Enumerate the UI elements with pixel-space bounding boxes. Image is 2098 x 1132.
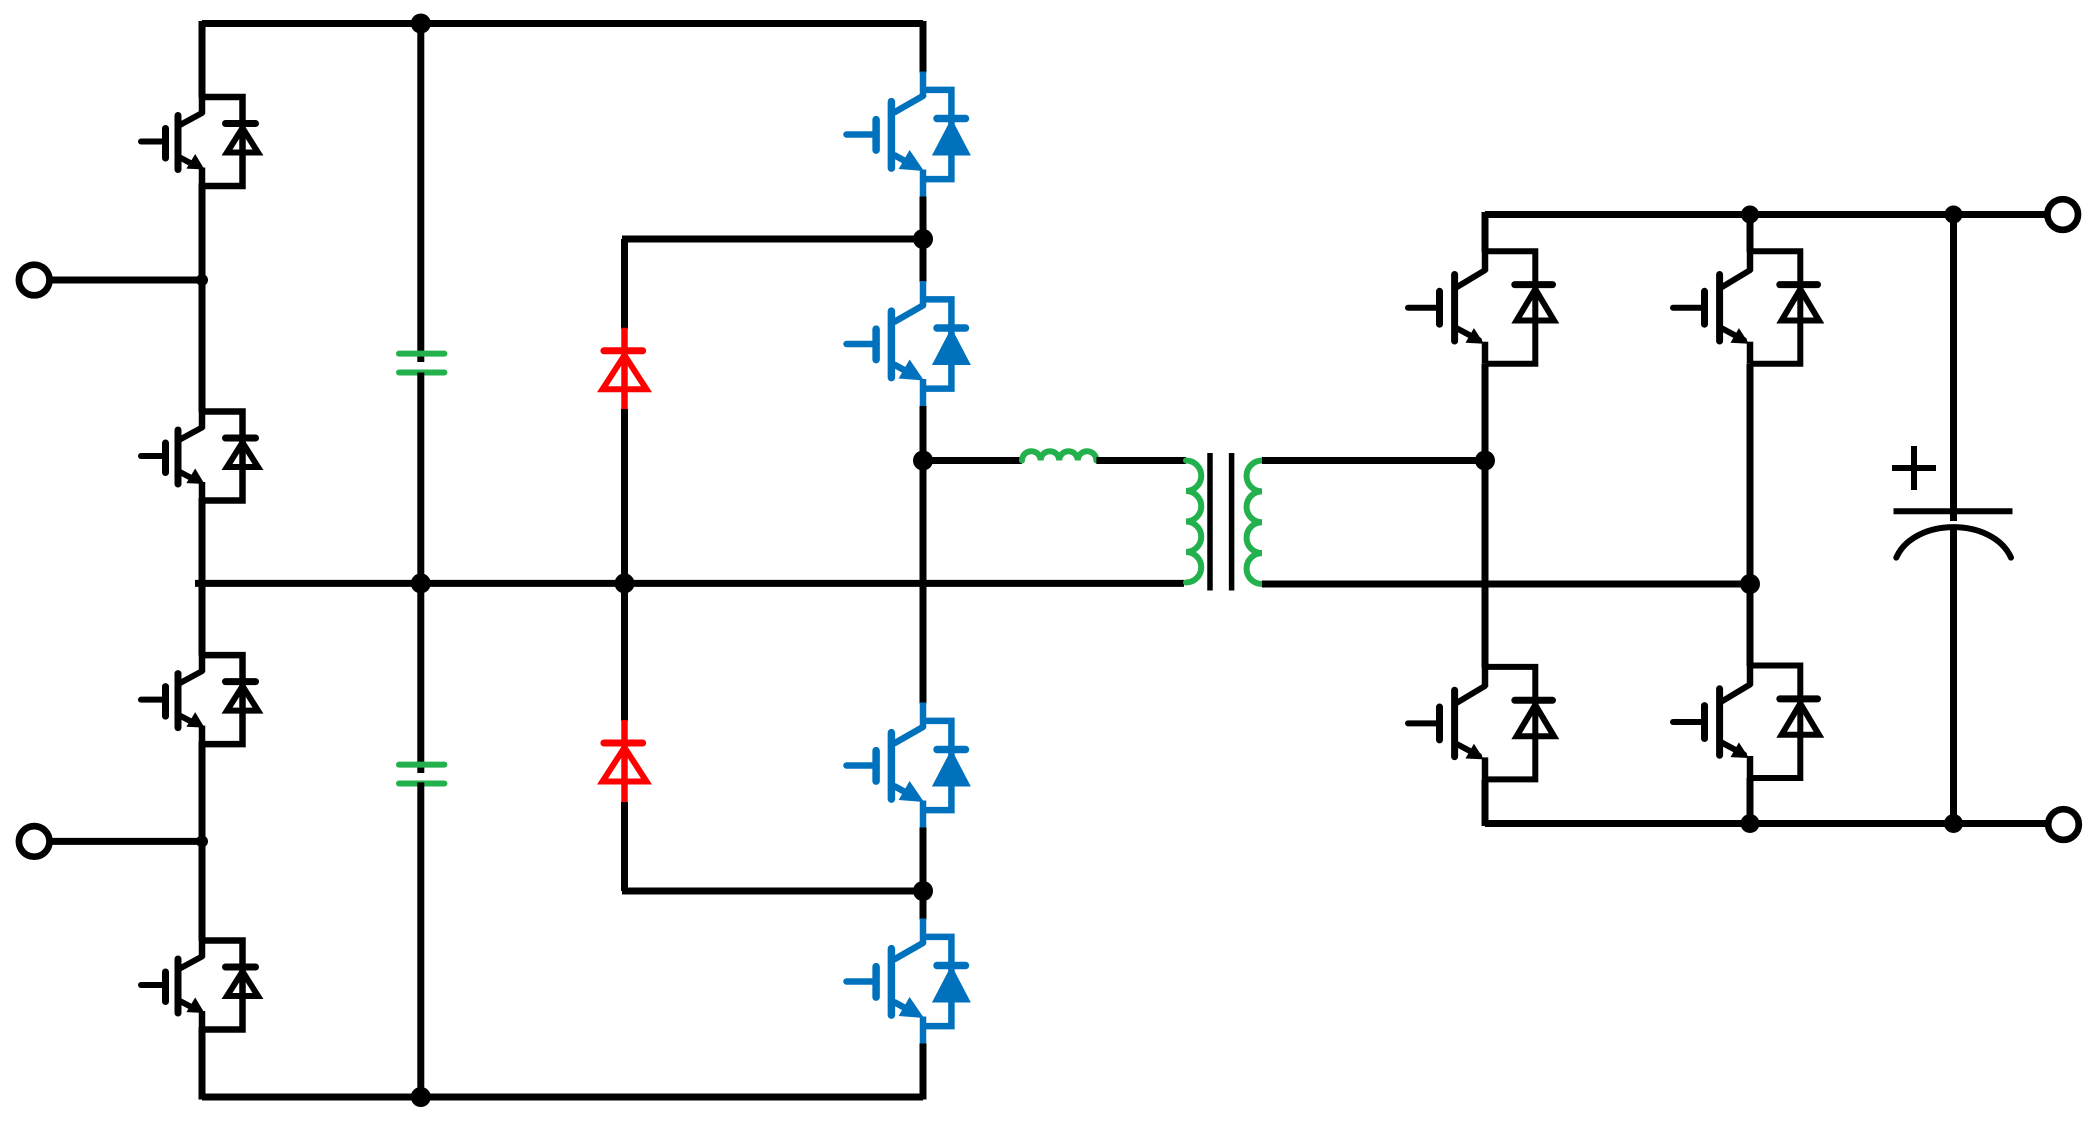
wire Q6 emitter to secondary bottom node	[1747, 364, 1754, 584]
wire right top rail	[1485, 211, 2045, 218]
wire node D to inductor	[923, 457, 1022, 464]
wire left column: node B to Q4	[199, 841, 206, 941]
output terminal - (bottom right)	[2048, 809, 2079, 840]
transistor T1 (blue IGBT)	[847, 72, 969, 198]
inductor L1 (green)	[1022, 451, 1096, 460]
output terminal + (top right)	[2047, 199, 2078, 230]
wire capacitor leg upper: top rail to C1	[417, 21, 424, 362]
input terminal 2	[19, 826, 50, 857]
wire input 2 to node B	[50, 838, 203, 845]
wire T1 emitter to node C	[920, 197, 927, 240]
junction right top rail / output cap	[1945, 206, 1963, 224]
wire blue leg: top rail to T1	[920, 21, 927, 73]
transistor T3 (blue IGBT)	[847, 703, 969, 829]
transistor T4 (blue IGBT)	[847, 919, 969, 1045]
transformer secondary winding (green)	[1247, 461, 1262, 585]
wire input 1 to node A	[50, 277, 203, 284]
node E (T3-T4 midpoint)	[913, 881, 933, 901]
capacitor C3 curved plate	[1896, 527, 2011, 557]
transistor Q1 (IGBT with antiparallel diode)	[141, 97, 258, 186]
junction secondary top at right bridge left leg	[1475, 451, 1495, 471]
node A (input 1 midpoint)	[196, 274, 208, 286]
wire node D to T3	[920, 461, 927, 704]
wire clamp branch upper horizontal	[622, 236, 923, 243]
wire left column: Q3 emitter to input node B	[199, 742, 206, 842]
wire output cap leg top	[1950, 215, 1957, 522]
wire Q8 emitter to bottom rail	[1747, 778, 1754, 824]
transistor Q5 (IGBT right bridge)	[1408, 251, 1554, 364]
wire clamp branch lower horizontal	[622, 888, 923, 895]
wire left column: Q1 emitter to input node A	[199, 184, 206, 281]
transformer core bar 2	[1229, 453, 1235, 591]
wire left column: top rail to Q1	[199, 21, 206, 98]
wire output cap leg bottom	[1950, 529, 1957, 824]
transistor Q8 (IGBT right bridge)	[1673, 666, 1819, 779]
transformer primary winding (green)	[1186, 461, 1201, 583]
wire left column: node A to Q2	[199, 280, 206, 412]
transistor Q3 (IGBT with antiparallel diode)	[141, 655, 258, 744]
wire top rail (left DC bus +)	[202, 20, 923, 27]
input terminal 1	[19, 265, 50, 296]
wire clamp branch upper vertical	[621, 239, 628, 329]
junction on top rail at capacitor leg	[411, 14, 431, 34]
transistor Q6 (IGBT right bridge)	[1673, 251, 1819, 364]
wire left column: Q4 emitter to bottom rail	[199, 1027, 206, 1100]
wire right leg: secondary bottom node to Q8	[1747, 584, 1754, 666]
capacitor C1 (green)	[399, 354, 444, 373]
transistor Q2 (IGBT with antiparallel diode)	[141, 412, 258, 501]
wire Q7 emitter to bottom rail	[1482, 779, 1489, 826]
wire transformer secondary top to right bridge	[1262, 457, 1485, 464]
junction right bottom rail / output cap	[1944, 814, 1963, 833]
diode D2 (red clamp diode)	[603, 720, 647, 802]
wire node E to T4	[920, 891, 927, 920]
wire node C to T2	[920, 239, 927, 282]
wire transformer secondary bottom to right bridge	[1262, 581, 1750, 588]
wire left leg: secondary node to Q7	[1482, 461, 1489, 668]
wire middle rail	[195, 580, 1184, 587]
transistor T2 (blue IGBT)	[847, 281, 969, 407]
wire bottom rail (left DC bus -)	[202, 1094, 923, 1101]
capacitor C3 positive plate	[1894, 508, 2013, 514]
diode D1 (red clamp diode)	[603, 328, 647, 410]
junction right bottom rail / right leg	[1741, 814, 1760, 833]
wire right bottom rail	[1485, 820, 2046, 827]
node B (input 2 midpoint)	[196, 835, 208, 847]
polarity + sign	[1892, 446, 1936, 490]
wire right bridge left leg: rail to Q5	[1482, 212, 1489, 252]
node D (transformer feed node)	[913, 451, 933, 471]
junction secondary bottom at right bridge right leg	[1740, 574, 1760, 594]
wire inductor to transformer primary	[1096, 457, 1186, 464]
wire capacitor leg: C1 to middle rail	[417, 373, 424, 584]
wire T3 emitter to node E	[920, 828, 927, 892]
wire middle rail to D2	[621, 583, 628, 721]
junction middle rail / capacitor leg	[411, 573, 431, 593]
junction on bottom rail at capacitor leg	[411, 1087, 431, 1107]
wire capacitor leg: middle rail to C2	[417, 583, 424, 773]
transistor Q7 (IGBT right bridge)	[1408, 667, 1554, 780]
wire capacitor leg: C2 to bottom rail	[417, 782, 424, 1097]
wire D2 to lower clamp corner	[621, 802, 628, 891]
wire T2 emitter to node D	[920, 406, 927, 461]
capacitor C2 (green)	[399, 765, 444, 784]
node C (T1-T2 midpoint)	[913, 229, 933, 249]
wire left column: middle rail to Q3	[199, 583, 206, 655]
junction right top rail / right leg	[1741, 206, 1759, 224]
wire T4 emitter to bottom rail	[920, 1044, 927, 1100]
wire left column: Q2 emitter to middle rail	[199, 498, 206, 583]
wire D1 anode to middle rail	[621, 409, 628, 583]
transformer core bar 1	[1207, 453, 1213, 591]
wire Q5 emitter to secondary node	[1482, 364, 1489, 461]
junction middle rail / clamp diode leg	[615, 573, 635, 593]
wire right bridge right leg: rail to Q6	[1747, 215, 1754, 252]
transistor Q4 (IGBT with antiparallel diode)	[141, 941, 258, 1030]
